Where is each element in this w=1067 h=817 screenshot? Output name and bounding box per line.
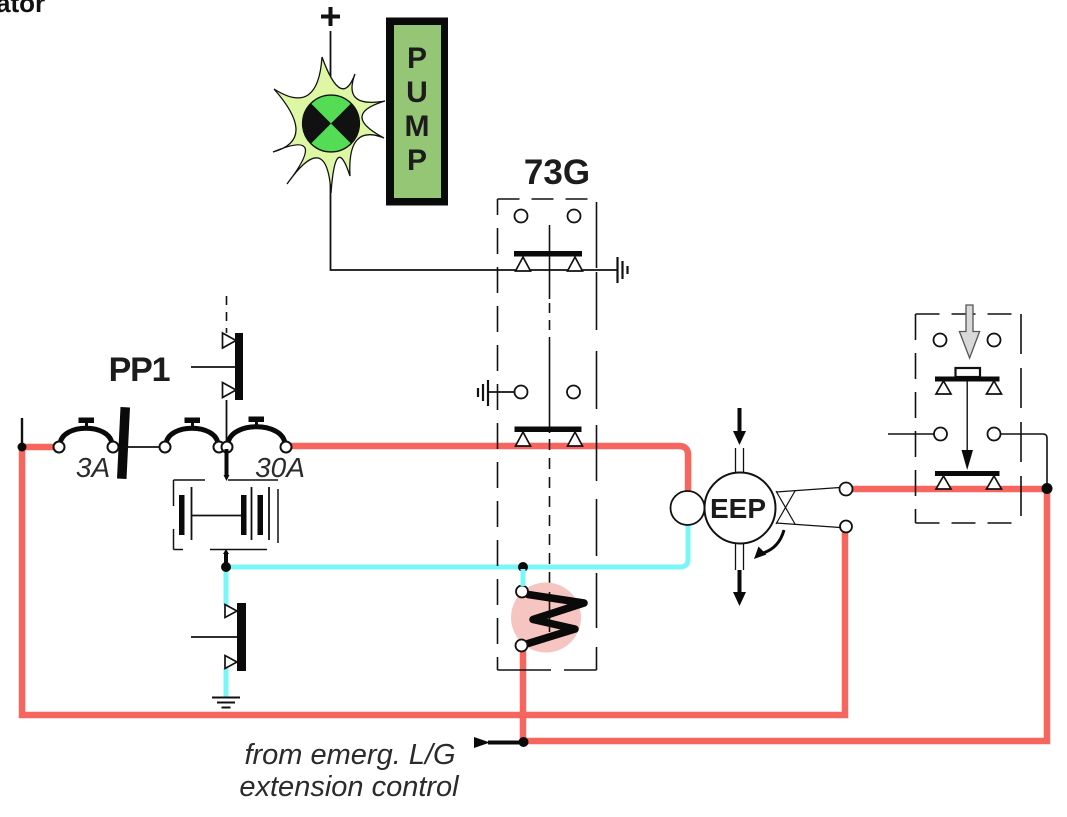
shaft lower bbox=[736, 543, 744, 570]
linkage terminals bbox=[840, 483, 853, 496]
wire red left vertical + bottom bus bbox=[22, 447, 845, 715]
busbar ground bbox=[237, 603, 246, 671]
motor EEP bbox=[671, 473, 776, 544]
svg-text:3A: 3A bbox=[76, 452, 110, 483]
battery box bbox=[174, 480, 279, 550]
switch link arrow bbox=[966, 381, 968, 452]
relay 73G mechanical link line bbox=[549, 225, 551, 592]
breaker 30A bbox=[222, 417, 292, 453]
busbar PP1 bbox=[235, 333, 243, 400]
wire red emerg horizontal bbox=[523, 486, 1047, 741]
lamp starburst bbox=[273, 57, 385, 193]
svg-text:extension control: extension control bbox=[239, 771, 460, 803]
svg-text:P: P bbox=[407, 42, 427, 75]
svg-text:from emerg. L/G: from emerg. L/G bbox=[244, 739, 455, 771]
arrow down upper bbox=[733, 408, 746, 445]
wire coil stub bbox=[521, 569, 526, 586]
switch actuator bbox=[956, 368, 981, 377]
busbar PP1 triangles bbox=[223, 333, 237, 348]
switch mid terminals bbox=[934, 428, 947, 441]
switch upper triangles bbox=[936, 381, 951, 394]
switch lower triangles bbox=[936, 476, 951, 489]
svg-text:U: U bbox=[406, 76, 428, 109]
node switch junction bbox=[1042, 483, 1053, 494]
linkage scissor bbox=[776, 488, 840, 528]
wire red coil to emerg junction bbox=[520, 650, 527, 742]
contact 73G lower triangles bbox=[516, 432, 531, 446]
contact 73G lower bar bbox=[515, 427, 582, 433]
wire cyan battery to EEP bbox=[226, 523, 688, 567]
arrow emerg input bbox=[474, 737, 490, 748]
breaker middle bbox=[160, 418, 225, 453]
switch top terminals bbox=[934, 334, 947, 347]
battery plates bbox=[179, 487, 269, 540]
busbar PP1 dashdot above bbox=[226, 296, 228, 333]
node emerg junction bbox=[519, 737, 529, 747]
busbar divider bbox=[117, 407, 130, 479]
switch bar upper bbox=[935, 377, 1000, 382]
plus terminal bbox=[321, 7, 340, 26]
node coil top junction bbox=[518, 562, 528, 572]
node battery junction bbox=[221, 562, 231, 572]
PUMP label box bbox=[386, 18, 448, 206]
wire divider to breaker bbox=[124, 446, 160, 448]
contact 73G upper terminals bbox=[515, 210, 528, 223]
wire switch right bbox=[1001, 434, 1048, 486]
wire cyan battery to ground bus bbox=[224, 567, 229, 606]
relay 73G dashed box bbox=[498, 199, 597, 670]
wire red left stub bbox=[22, 444, 55, 451]
switch dashed box bbox=[916, 314, 1022, 523]
wire switch left bbox=[888, 433, 934, 435]
arrow down lower bbox=[733, 570, 746, 606]
busbar ground triangles bbox=[225, 605, 237, 618]
svg-text:P: P bbox=[407, 144, 427, 177]
ground mid left bbox=[478, 380, 488, 406]
switch bar lower bbox=[935, 471, 1000, 476]
wire bus to breaker bbox=[226, 400, 228, 449]
battery bottom stub bbox=[223, 549, 229, 554]
svg-text:ator: ator bbox=[0, 0, 45, 18]
arrow push gray bbox=[959, 305, 979, 358]
breaker 3A bbox=[54, 418, 119, 453]
wire red 30A to EEP bbox=[290, 446, 688, 494]
svg-text:73G: 73G bbox=[524, 153, 590, 192]
svg-text:M: M bbox=[405, 110, 430, 143]
coil 73G bbox=[511, 583, 584, 653]
wire ground to terminal bbox=[488, 391, 514, 393]
wire cyan ground bus to ground bbox=[224, 668, 229, 697]
svg-text:30A: 30A bbox=[255, 452, 305, 483]
shaft upper bbox=[736, 448, 744, 473]
svg-text:EEP: EEP bbox=[710, 493, 766, 524]
node left junction bbox=[21, 418, 23, 445]
contact 73G mid terminals bbox=[515, 386, 528, 399]
svg-text:PP1: PP1 bbox=[109, 351, 170, 389]
wire red switch to EEP linkage bbox=[852, 486, 1047, 493]
battery feed bbox=[225, 449, 229, 477]
wire pump feed bbox=[331, 31, 618, 270]
ground top right bbox=[618, 257, 628, 283]
contact 73G upper triangles bbox=[516, 257, 531, 271]
busbar PP1 link line bbox=[191, 366, 235, 368]
contact 73G upper bar bbox=[514, 251, 582, 257]
ground bottom bbox=[212, 698, 240, 708]
arrow rotation bbox=[754, 530, 784, 559]
busbar ground link bbox=[191, 636, 237, 638]
